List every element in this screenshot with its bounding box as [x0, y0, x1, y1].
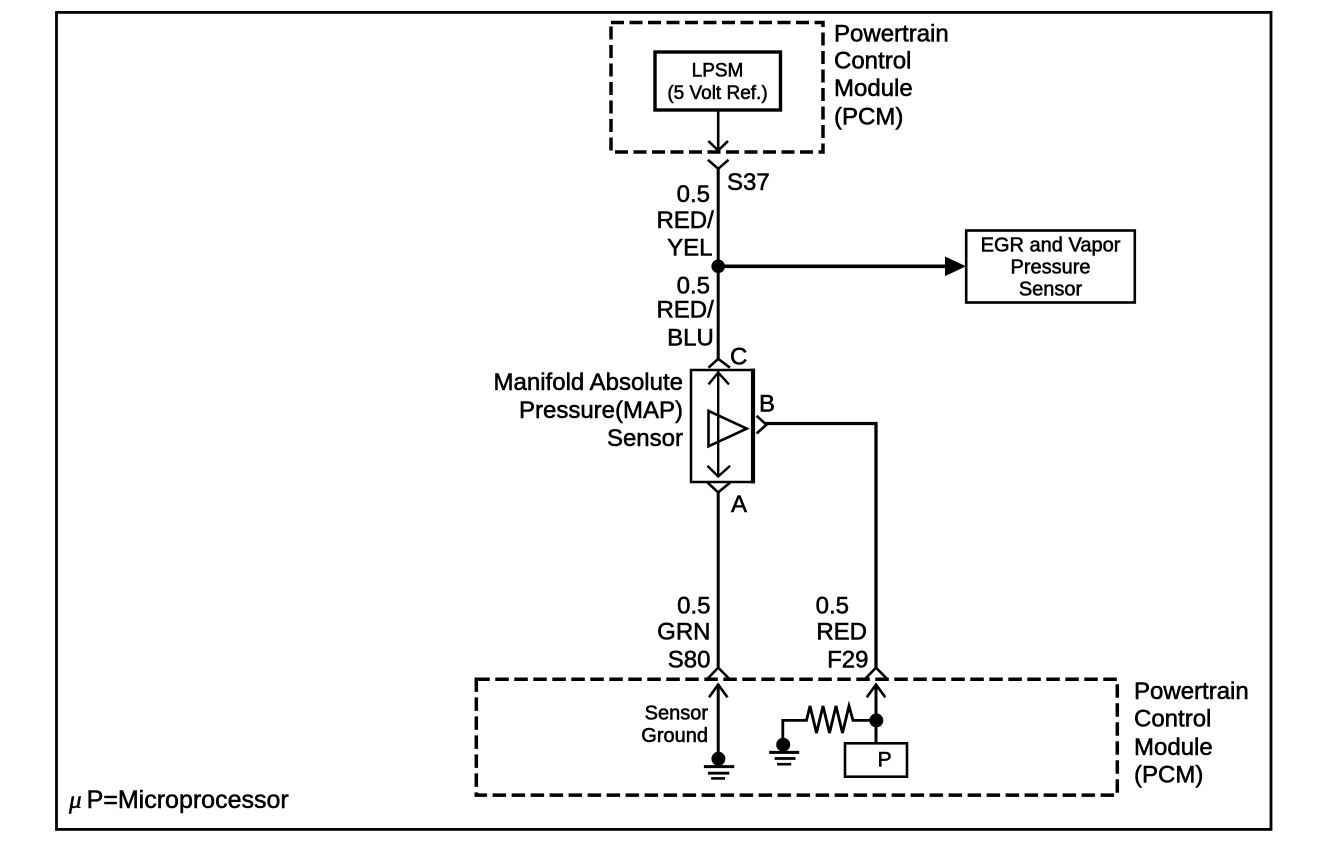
wire: splice to MAP pin C	[717, 266, 720, 359]
svg-text:GRN: GRN	[657, 619, 710, 646]
resistor (pull-up)	[783, 706, 876, 744]
svg-text:Module: Module	[834, 75, 913, 102]
svg-text:A: A	[731, 491, 747, 518]
svg-text:Manifold Absolute: Manifold Absolute	[494, 369, 683, 396]
PCM module dashed box (top)	[611, 23, 823, 153]
wire: sensor ground pin down to ground	[717, 684, 720, 759]
svg-text:Control: Control	[1134, 705, 1211, 732]
label: Powertrain Control Module (PCM) top	[834, 20, 949, 130]
svg-text:(5 Volt Ref.): (5 Volt Ref.)	[667, 83, 767, 104]
svg-text:0.5: 0.5	[677, 181, 710, 208]
svg-text:0.5: 0.5	[677, 592, 710, 619]
label: Manifold Absolute Pressure(MAP) Sensor	[494, 369, 683, 452]
svg-text:RED: RED	[816, 619, 867, 646]
svg-text:Pressure(MAP): Pressure(MAP)	[519, 397, 683, 424]
connector S80 arrow (male half below boundary)	[709, 685, 728, 698]
EGR and Vapor Pressure Sensor box	[966, 231, 1135, 303]
svg-text:Pressure: Pressure	[1010, 257, 1090, 279]
svg-text:RED/: RED/	[656, 207, 714, 234]
connector arrow at PCM boundary (male half)	[708, 141, 728, 151]
MAP internal down arrowhead	[708, 466, 731, 477]
pin A connector	[708, 483, 731, 493]
wire: LPSM output down to PCM boundary	[717, 110, 720, 150]
svg-text:RED/: RED/	[656, 297, 714, 324]
svg-text:S80: S80	[668, 647, 711, 674]
label: Powertrain Control Module (PCM) bottom	[1134, 678, 1249, 789]
svg-text:μ P=Microprocessor: μ P=Microprocessor	[68, 786, 289, 814]
svg-text:LPSM: LPSM	[692, 61, 744, 82]
svg-text:YEL: YEL	[667, 235, 712, 262]
label 0.5 GRN S80	[657, 592, 710, 673]
label Sensor Ground	[641, 703, 708, 748]
connector F29 arrow (male half below boundary)	[867, 685, 886, 698]
svg-text:BLU: BLU	[667, 325, 714, 352]
svg-text:0.5: 0.5	[677, 273, 710, 300]
MAP internal up arrowhead	[709, 373, 730, 385]
svg-text:Powertrain: Powertrain	[1134, 678, 1249, 705]
pin C connector	[709, 359, 731, 368]
svg-text:C: C	[730, 344, 747, 371]
pin B connector	[757, 416, 767, 434]
wire: pin A to connector S80	[717, 492, 720, 667]
connector S80 (female half above boundary)	[708, 668, 729, 679]
svg-text:Sensor: Sensor	[1019, 279, 1083, 301]
MAP amplifier triangle	[709, 411, 747, 446]
svg-text:Ground: Ground	[641, 725, 708, 747]
connector S37 (female half)	[708, 160, 729, 169]
wire: F29 pin down to junction	[875, 684, 878, 743]
label 0.5 RED/YEL	[656, 181, 714, 262]
svg-text:(PCM): (PCM)	[834, 103, 903, 130]
microprocessor P box	[845, 743, 907, 776]
wire: connector S37 to splice	[717, 169, 720, 266]
svg-text:P: P	[878, 749, 892, 772]
svg-text:Sensor: Sensor	[645, 703, 709, 725]
MAP internal wire C to A	[717, 371, 719, 476]
label 0.5 RED F29	[816, 592, 869, 673]
svg-text:Sensor: Sensor	[607, 425, 683, 452]
svg-text:EGR and Vapor: EGR and Vapor	[981, 235, 1121, 257]
MAP sensor box	[691, 369, 753, 484]
svg-text:B: B	[759, 391, 775, 418]
junction node at F29 / resistor / P	[869, 713, 883, 727]
svg-text:(PCM): (PCM)	[1134, 762, 1203, 789]
svg-text:Control: Control	[834, 48, 911, 75]
ground (sensor ground)	[704, 752, 734, 779]
wire: splice to EGR and Vapor Pressure Sensor (with arrowhead)	[718, 264, 946, 268]
svg-text:F29: F29	[827, 647, 868, 674]
label 0.5 RED/BLU	[656, 273, 714, 352]
PCM module dashed box (bottom)	[476, 679, 1117, 795]
LPSM (5 Volt Ref.) box	[655, 52, 781, 110]
connector F29 (female half above boundary)	[865, 668, 886, 679]
svg-text:Powertrain: Powertrain	[834, 20, 949, 47]
svg-text:S37: S37	[727, 169, 770, 196]
wire: pin B to connector F29	[764, 424, 876, 668]
ground (resistor)	[769, 738, 799, 765]
svg-text:0.5: 0.5	[816, 592, 849, 619]
svg-text:Module: Module	[1134, 734, 1213, 761]
splice junction node	[711, 260, 725, 274]
